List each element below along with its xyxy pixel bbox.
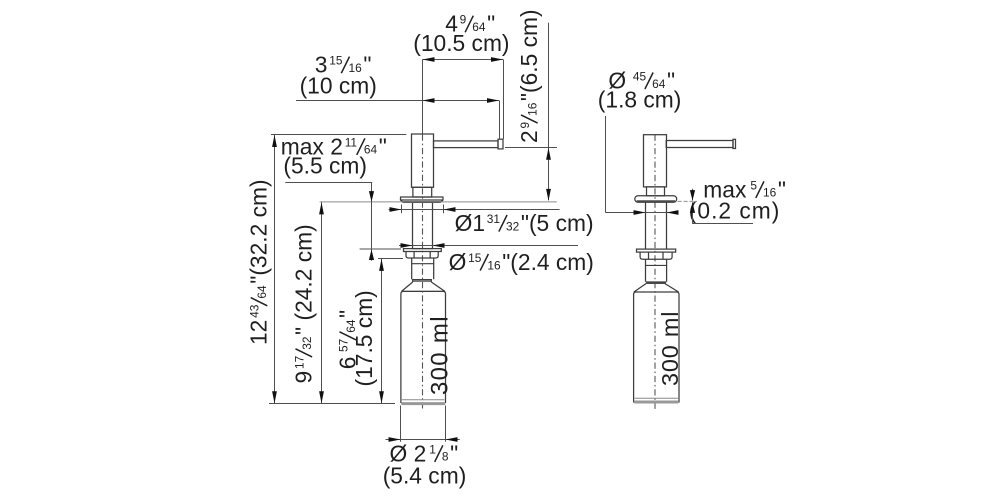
svg-text:(10.5 cm): (10.5 cm) (413, 30, 509, 56)
svg-text:Ø1: Ø1 (455, 210, 485, 236)
svg-text:32: 32 (300, 336, 314, 350)
svg-text:"(6.5 cm): "(6.5 cm) (516, 9, 542, 101)
svg-text:(17.5 cm): (17.5 cm) (351, 290, 377, 386)
svg-text:(0.2 cm): (0.2 cm) (689, 197, 781, 223)
svg-text:(5.4 cm): (5.4 cm) (383, 463, 467, 489)
svg-text:(1.8 cm): (1.8 cm) (598, 87, 682, 113)
svg-text:45: 45 (633, 70, 647, 84)
svg-text:2: 2 (516, 130, 542, 143)
svg-text:17: 17 (293, 355, 307, 369)
svg-text:64: 64 (255, 285, 269, 299)
svg-text:Ø: Ø (449, 249, 467, 275)
svg-text:300 ml: 300 ml (426, 315, 453, 395)
svg-text:12: 12 (246, 320, 272, 345)
svg-text:43: 43 (248, 304, 262, 318)
svg-text:"(32.2 cm): "(32.2 cm) (246, 179, 272, 283)
svg-text:"(5 cm): "(5 cm) (521, 210, 594, 236)
svg-text:15: 15 (468, 251, 482, 265)
svg-text:32: 32 (506, 219, 520, 233)
svg-text:300 ml: 300 ml (657, 311, 683, 386)
svg-text:57: 57 (337, 338, 351, 352)
svg-text:": " (379, 133, 387, 159)
svg-text:9: 9 (460, 13, 467, 27)
svg-text:11: 11 (345, 135, 358, 149)
svg-text:5: 5 (750, 178, 757, 192)
svg-text:16: 16 (525, 102, 539, 116)
svg-text:15: 15 (329, 54, 343, 68)
svg-text:31: 31 (487, 212, 501, 226)
svg-text:"(2.4 cm): "(2.4 cm) (502, 249, 594, 275)
svg-text:" (24.2 cm): " (24.2 cm) (291, 224, 317, 335)
svg-text:9: 9 (518, 122, 532, 129)
svg-text:8: 8 (442, 450, 449, 464)
svg-text:(10 cm): (10 cm) (300, 72, 377, 98)
svg-text:(5.5 cm): (5.5 cm) (283, 152, 367, 178)
svg-text:1: 1 (429, 442, 436, 456)
svg-text:16: 16 (487, 258, 501, 272)
svg-text:9: 9 (291, 371, 317, 384)
